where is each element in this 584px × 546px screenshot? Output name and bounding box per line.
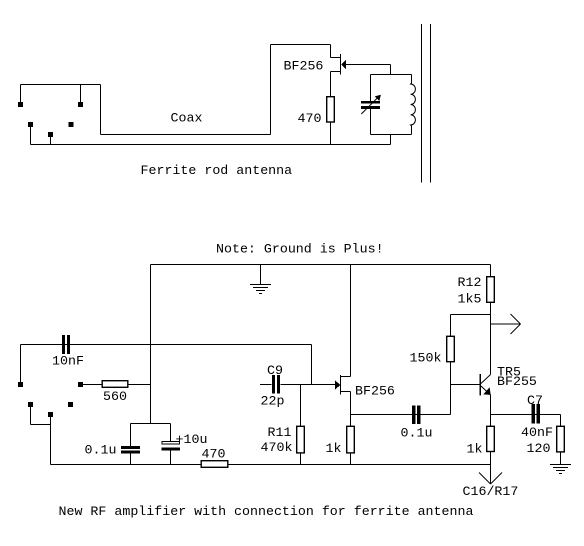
wire 470 to shield rail [330,122,332,144]
wire rail to R12 [490,265,492,277]
wire J2 pin3 to pin4 [31,424,51,426]
transistor Q2 gate arrow [335,380,340,390]
connector J2 pin 4 [48,412,53,417]
wire drain drop [330,45,332,58]
wire to C 0.1u [130,424,132,447]
connector J1 pin 5 [69,122,74,127]
wire 150k bottom to coupling net [450,362,452,415]
ground bar 3 [256,290,265,292]
wire gate net to R11 [300,385,302,427]
node ground rail (bottom) [51,464,491,466]
tank bottom wire [371,134,412,136]
wire 10nF net [21,344,312,346]
transistor TR5 emitter diagonal [481,386,490,395]
capacitor VC1 plate 1 [361,101,380,104]
capacitor 10nF plate 1 [62,335,65,354]
ground bar 2 [253,287,268,289]
capacitor C7 plate 2 [537,404,541,424]
svg-text:BF255: BF255 [497,374,537,389]
inductor L1 bottom lead [411,126,413,135]
resistor 470 (bottom) [201,461,228,468]
wire 560 to rail drop [128,384,151,386]
ground bar 3 [556,470,565,472]
svg-text:R11: R11 [268,425,292,440]
capacitor 10nF plate 2 [67,335,70,354]
svg-text:120: 120 [527,441,551,456]
wire 10u to ground rail [170,450,172,464]
wire TR5 emitter down [490,395,492,427]
wire J2 pin4 to ground rail [50,417,52,465]
svg-text:1k: 1k [326,441,342,456]
ground bar 4 [559,473,562,475]
svg-text:0.1u: 0.1u [401,426,433,441]
wire coax centre conductor [101,134,271,136]
wire J1 pin1 lead [20,85,22,103]
svg-text:470: 470 [202,447,226,462]
resistor 470 (top) [327,97,335,122]
wire 150k top [450,315,452,337]
connector J2 pin 1 [18,382,23,387]
capacitor VC1 plate 2 [361,106,380,109]
wire rail left drop [150,265,152,424]
wire 1k emitter to C16/R17 [490,452,492,485]
wire J1 pin2 lead [80,85,82,103]
wire Q1 source to R 470 [330,72,332,97]
transistor TR5 collector diagonal [481,375,491,384]
svg-text:10nF: 10nF [52,354,84,369]
wire TR5 base lead [451,384,480,386]
wire source coupling net [351,414,451,416]
wire drain loop top [271,44,331,46]
svg-text:C16/R17: C16/R17 [463,484,519,499]
ground bar 2 [553,467,568,469]
transistor Q2 BF256 channel [340,375,342,395]
resistor 560 [102,381,128,388]
transistor Q1 gate arrow [341,60,346,69]
wire R12 to collector [490,303,492,375]
arrow to C16/R17 [479,473,491,485]
wire 1k to ground rail [350,453,352,465]
svg-text:C9: C9 [267,363,283,378]
svg-text:470: 470 [298,111,322,126]
ground (top of amplifier) stem [260,265,262,285]
wire Q2 source lead [341,391,351,393]
svg-text:C7: C7 [527,393,543,408]
capacitor C9 plate 1 [272,375,275,394]
ferrite rod line 1 [421,24,423,183]
wire J1 to coax centre [100,85,102,135]
wire 150k to collector node [451,314,491,316]
ferrite rod line 2 [430,24,432,183]
connector J1 pin 3 [28,122,33,127]
connector J1 top bar [21,84,101,86]
node V+ rail (bottom circuit) [151,264,491,266]
capacitor 0.1u (coupling) plate 1 [412,406,416,425]
svg-text:150k: 150k [410,351,442,366]
wire 10nF to J2 pin1 [20,345,22,383]
svg-text:560: 560 [103,389,127,404]
connector J1 pin 4 [48,132,53,137]
wire to C 10u [170,424,172,442]
wire Q1 source lead [331,71,341,73]
wire 120 to ground [560,452,562,465]
wire emitter net [491,414,561,416]
wire Q2 drain lead [341,376,351,378]
wire coax to drain loop left [270,45,272,135]
svg-text:Coax: Coax [171,110,203,125]
ground bar 1 [250,284,271,286]
inductor L1 coil [411,83,416,126]
capacitor 10u plate + (hollow) [162,442,180,445]
inductor L1 top lead [411,75,413,84]
capacitor VC1 adjust arrow [361,97,378,114]
wire Q1 gate lead [346,64,391,66]
svg-text:Ferrite rod antenna: Ferrite rod antenna [141,163,293,178]
svg-text:BF256: BF256 [284,59,324,74]
capacitor 10u plate - [161,447,180,450]
svg-text:22p: 22p [261,394,285,409]
connector J1 pin 1 [18,102,23,107]
tank left wire lower [370,109,372,135]
svg-text:R12: R12 [458,275,482,290]
wire 10nF net to gate net [311,345,313,385]
wire 0.1u to ground rail [130,454,132,465]
transistor Q1 BF256 channel [340,54,342,75]
svg-text:+10u: +10u [176,432,208,447]
resistor R12 1k5 [487,277,495,303]
resistor 120 [557,426,565,452]
svg-text:40nF: 40nF [521,425,553,440]
tank left wire upper [370,75,372,102]
wire Q2 source down [350,392,352,427]
connector J1 pin 2 [78,102,83,107]
svg-text:1k5: 1k5 [458,292,482,307]
capacitor C9 plate 2 [277,375,280,394]
wire J1 pin3 to shield rail [30,127,32,145]
wire J1 pin4 to shield rail [50,137,52,145]
capacitor 0.1u plate 2 [121,451,140,454]
svg-text:Note: Ground is Plus!: Note: Ground is Plus! [216,241,384,256]
transistor TR5 emitter arrow [483,387,490,395]
capacitor 0.1u (coupling) plate 2 [417,406,421,425]
wire J2 pin2 to 560 [83,384,102,386]
tank circuit top wire [371,74,412,76]
resistor 1k (source) [347,426,355,453]
wire gate net [281,384,336,386]
wire J2 pin3 drop [30,407,32,425]
connector J2 pin 5 [68,402,73,407]
connector J2 pin 2 [78,382,83,387]
wire coax shield return [31,144,391,146]
wire output tap [491,323,521,325]
wire decoupling junction bar [131,423,171,425]
wire C7 to 120 [560,415,562,427]
wire tank bottom to shield rail [390,135,392,145]
wire C9 left stub [260,384,272,386]
capacitor C7 plate 1 [532,404,536,424]
svg-text:470k: 470k [261,440,293,455]
output arrow head [511,314,521,324]
svg-text:1k: 1k [467,441,483,456]
ground bar 4 [259,293,262,295]
wire R11 to ground rail [300,453,302,465]
resistor 150k [447,336,455,361]
wire drain lead Q1 [331,57,341,59]
resistor 1k (emitter) [487,426,495,451]
svg-text:New RF amplifier with connecti: New RF amplifier with connection for fer… [59,504,474,519]
svg-text:0.1u: 0.1u [85,442,117,457]
capacitor 0.1u plate 1 [121,446,140,449]
resistor R11 470k [297,426,305,453]
svg-text:BF256: BF256 [355,383,395,398]
transistor TR5 base bar [480,374,482,396]
connector J2 pin 3 [28,402,33,407]
ground (output side) bar 1 [550,464,571,466]
wire gate to tank top [390,65,392,75]
wire Q2 drain to rail [350,265,352,377]
